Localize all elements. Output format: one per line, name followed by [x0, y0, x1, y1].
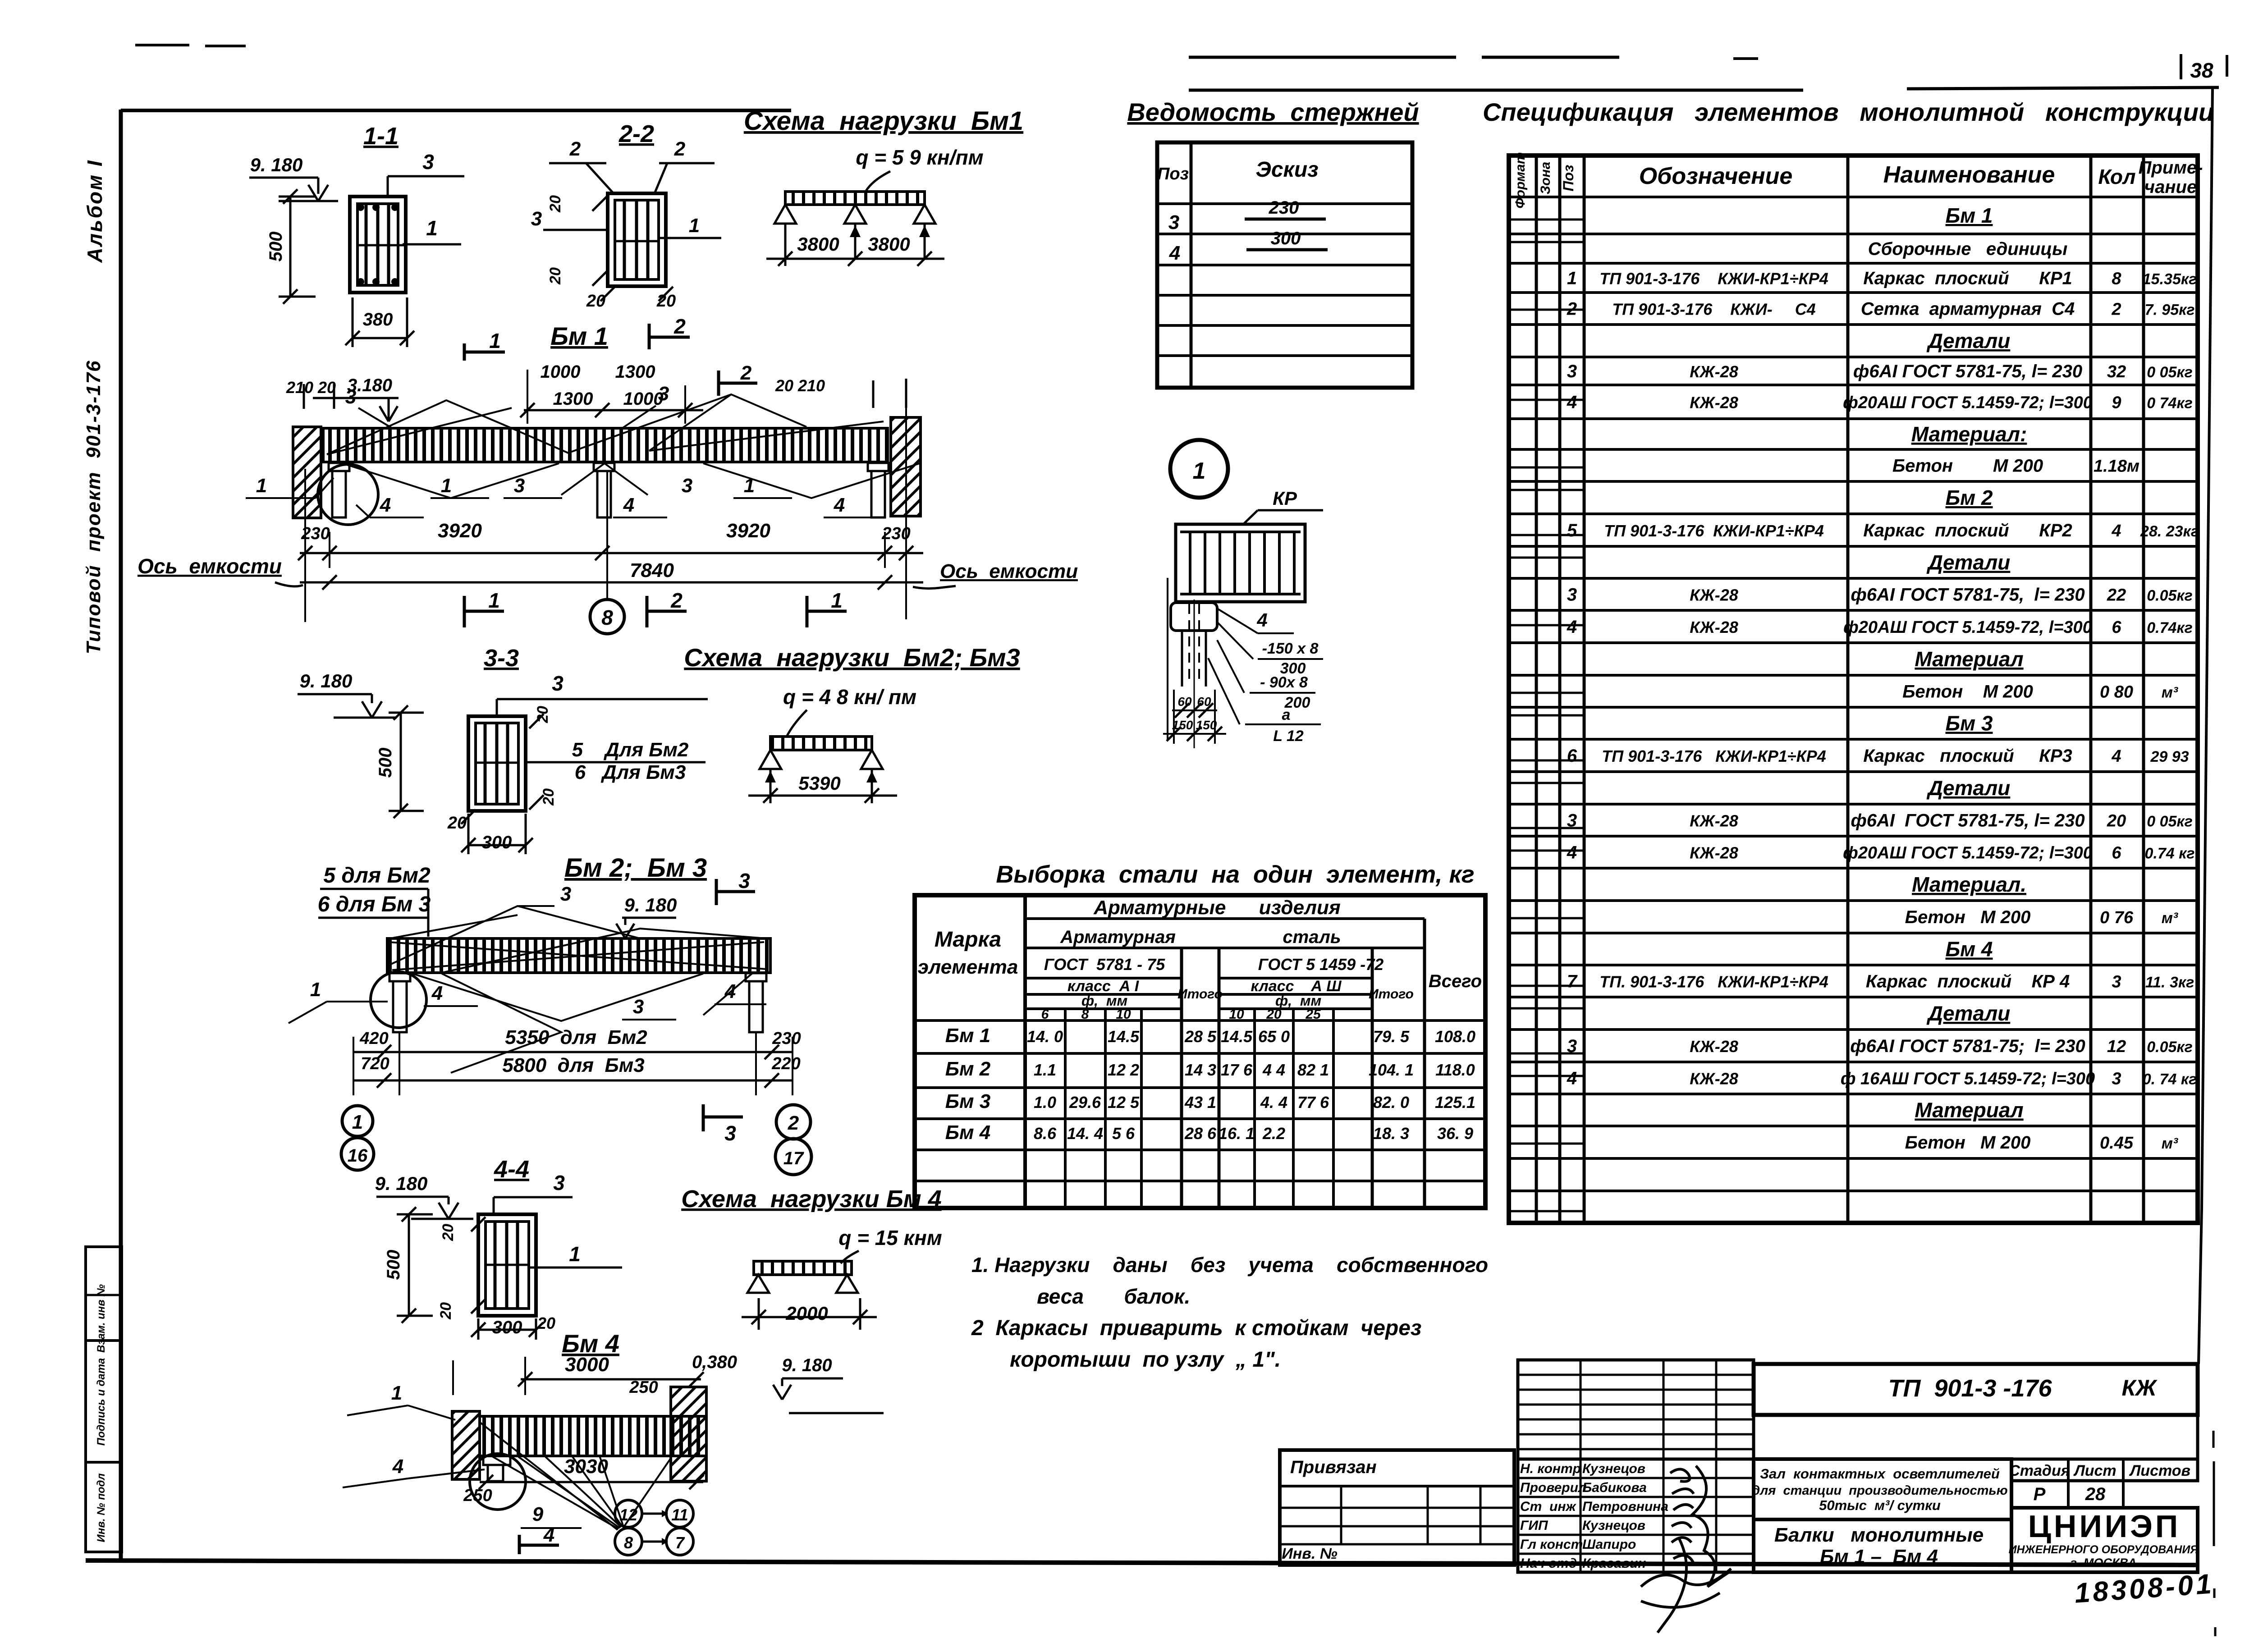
- Бм4 beam band with stirrups: [480, 1416, 706, 1456]
- Бм4 detail circle: [470, 1454, 526, 1510]
- svg-text:ф6АI ГОСТ 5781-75, l= 230: ф6АI ГОСТ 5781-75, l= 230: [1851, 811, 2084, 831]
- load strip Бм1: [785, 192, 925, 205]
- page frame bottom border: [86, 1560, 2199, 1565]
- svg-text:28: 28: [2085, 1484, 2106, 1504]
- svg-text:Поз: Поз: [1157, 165, 1189, 183]
- svg-text:77 6: 77 6: [1297, 1093, 1329, 1112]
- node circle 1: [1170, 440, 1228, 498]
- svg-text:108.0: 108.0: [1435, 1027, 1475, 1046]
- svg-text:Инв. №: Инв. №: [1282, 1545, 1337, 1562]
- section 2-2 column section: [608, 193, 666, 286]
- svg-text:7. 95кг: 7. 95кг: [2145, 302, 2195, 319]
- svg-text:Формат: Формат: [1513, 152, 1528, 208]
- section flag 2 right of Бм1 label: [648, 324, 651, 349]
- svg-text:20: 20: [547, 195, 564, 213]
- title block: привязан table: [1280, 1450, 1514, 1565]
- svg-text:5 Для Бм2: 5 Для Бм2: [572, 739, 689, 761]
- svg-text:q = 15 кнм: q = 15 кнм: [838, 1226, 942, 1249]
- svg-text:для станции производительнос: для станции производительностью: [1752, 1483, 2007, 1498]
- svg-text:Р: Р: [2034, 1484, 2046, 1504]
- section 4-4 dim 300 and 20: [478, 1329, 536, 1331]
- svg-text:3: 3: [1567, 362, 1577, 381]
- svg-text:3030: 3030: [564, 1455, 608, 1478]
- svg-text:14.5: 14.5: [1108, 1027, 1140, 1046]
- svg-text:0 05кг: 0 05кг: [2147, 813, 2193, 830]
- Бм1 top flag 2: [717, 371, 720, 396]
- svg-text:12: 12: [2107, 1037, 2126, 1056]
- svg-text:Ведомость стержней: Ведомость стержней: [1127, 98, 1419, 126]
- svg-text:1: 1: [1193, 458, 1206, 484]
- svg-text:1300: 1300: [615, 362, 655, 382]
- svg-text:Схема нагрузки Бм1: Схема нагрузки Бм1: [744, 106, 1023, 136]
- svg-text:Бм 2: Бм 2: [1946, 486, 1993, 509]
- svg-text:9. 180: 9. 180: [375, 1173, 428, 1194]
- Спецификация table frame: [1509, 156, 2198, 1223]
- node 1 leader -150x8/300: [1217, 622, 1253, 659]
- svg-text:Шапиро: Шапиро: [1582, 1537, 1636, 1552]
- svg-text:Бм 4: Бм 4: [945, 1121, 990, 1144]
- svg-text:Бабикова: Бабикова: [1582, 1480, 1647, 1495]
- svg-text:КЖ-28: КЖ-28: [1690, 394, 1738, 412]
- svg-text:3-3: 3-3: [484, 645, 519, 672]
- section 1-1 dim 500: [289, 197, 292, 297]
- svg-text:Гл конст: Гл конст: [1520, 1537, 1583, 1552]
- svg-text:ф20АШ ГОСТ 5.1459-72; l=300: ф20АШ ГОСТ 5.1459-72; l=300: [1843, 394, 2093, 412]
- svg-text:2: 2: [1567, 299, 1577, 319]
- flag 3 top right: [715, 879, 718, 905]
- svg-text:Балки монолитные: Балки монолитные: [1774, 1524, 1984, 1546]
- svg-text:9. 180: 9. 180: [782, 1355, 832, 1375]
- Бм1 beam band with stirrups: [323, 428, 888, 462]
- svg-text:Бм 1: Бм 1: [945, 1025, 990, 1047]
- svg-text:Итого: Итого: [1177, 987, 1223, 1002]
- left margin stamp boxes: [86, 1247, 122, 1552]
- svg-text:q = 4 8 кн/ пм: q = 4 8 кн/ пм: [783, 685, 916, 709]
- svg-text:Бм 1: Бм 1: [550, 322, 608, 350]
- page frame top dashes upper-left: [135, 44, 189, 46]
- Бм1 dim line 3920+3920 with 230 ends: [300, 552, 923, 554]
- dim 2000: [742, 1316, 877, 1318]
- svg-text:3920: 3920: [438, 520, 482, 542]
- svg-text:5800 для Бм3: 5800 для Бм3: [502, 1054, 644, 1076]
- svg-text:ф6АI ГОСТ 5781-75, l= 230: ф6АI ГОСТ 5781-75, l= 230: [1851, 585, 2084, 605]
- svg-text:ф20АШ ГОСТ 5.1459-72, l=300: ф20АШ ГОСТ 5.1459-72, l=300: [1843, 618, 2092, 637]
- supports Бм4: [747, 1275, 769, 1293]
- svg-text:3: 3: [531, 208, 542, 230]
- node 1 leader -90x8/200: [1217, 640, 1244, 693]
- svg-text:7840: 7840: [630, 559, 674, 581]
- svg-text:4: 4: [1567, 1069, 1577, 1089]
- svg-text:Нач отд: Нач отд: [1520, 1556, 1577, 1571]
- svg-text:3800: 3800: [868, 233, 910, 255]
- svg-text:ТП 901-3-176 КЖИ-КР1÷КР4: ТП 901-3-176 КЖИ-КР1÷КР4: [1599, 270, 1828, 288]
- svg-text:150: 150: [1172, 718, 1193, 732]
- title block: стадия лист листов: [2011, 1459, 2198, 1481]
- svg-text:элемента: элемента: [918, 956, 1018, 978]
- svg-text:Бм 2; Бм 3: Бм 2; Бм 3: [564, 853, 707, 883]
- svg-text:КЖ: КЖ: [2121, 1375, 2158, 1400]
- svg-text:1. Нагрузки даны без: 1. Нагрузки даны без учета собственного: [971, 1253, 1488, 1277]
- svg-text:3: 3: [738, 869, 750, 892]
- svg-text:7: 7: [675, 1533, 685, 1552]
- Бм1 bottom bar diagonals: [343, 463, 920, 498]
- svg-text:Материал: Материал: [1915, 1098, 2023, 1122]
- svg-text:м³: м³: [2162, 1135, 2179, 1152]
- svg-text:4: 4: [834, 494, 845, 516]
- section 4-4 dim 500: [408, 1214, 410, 1316]
- svg-text:14.5: 14.5: [1221, 1027, 1253, 1046]
- svg-text:43 1: 43 1: [1184, 1093, 1216, 1112]
- svg-text:6: 6: [1041, 1007, 1049, 1022]
- svg-text:300: 300: [482, 833, 512, 852]
- svg-text:Бм 4: Бм 4: [1946, 938, 1993, 961]
- svg-text:м³: м³: [2162, 684, 2179, 701]
- svg-text:1: 1: [391, 1382, 402, 1404]
- Бм2 diagonals above: [390, 906, 640, 965]
- svg-text:4: 4: [1169, 242, 1180, 264]
- svg-text:8: 8: [624, 1533, 633, 1552]
- svg-text:4: 4: [623, 494, 634, 516]
- section flag 3 bottom: [702, 1104, 705, 1131]
- svg-text:Бетон М 200: Бетон М 200: [1905, 1133, 2031, 1153]
- svg-text:500: 500: [384, 1250, 403, 1280]
- svg-text:ф, мм: ф, мм: [1275, 993, 1322, 1009]
- svg-text:118.0: 118.0: [1435, 1061, 1475, 1079]
- Бм2 dim 5800 для Бм3: [353, 1080, 793, 1082]
- svg-text:Бм 1 – Бм 4: Бм 1 – Бм 4: [1820, 1546, 1938, 1568]
- Бм2 detail circle at left support: [371, 972, 426, 1028]
- svg-text:4: 4: [2111, 747, 2121, 766]
- svg-text:14 3: 14 3: [1185, 1061, 1216, 1079]
- svg-text:22: 22: [2107, 586, 2126, 605]
- svg-text:4-4: 4-4: [494, 1156, 529, 1183]
- svg-text:КЖ-28: КЖ-28: [1690, 586, 1738, 604]
- svg-text:сталь: сталь: [1283, 927, 1341, 947]
- svg-text:веса балок.: веса балок.: [1037, 1285, 1190, 1308]
- node 1 support pad: [1171, 603, 1217, 631]
- title block: ТП 901-3-176 КЖ box: [1754, 1364, 2198, 1415]
- axis circles 2 / 17: [776, 1105, 811, 1139]
- svg-text:32: 32: [2107, 362, 2126, 381]
- svg-text:Н. контр: Н. контр: [1520, 1461, 1581, 1476]
- Бм1 support columns: [329, 463, 349, 471]
- svg-text:7: 7: [1567, 972, 1578, 992]
- svg-text:4: 4: [431, 982, 443, 1004]
- svg-text:12 5: 12 5: [1108, 1093, 1140, 1112]
- dim 3800 3800: [784, 224, 787, 266]
- Бм1 right wall: [891, 417, 921, 516]
- svg-text:220: 220: [771, 1054, 800, 1073]
- section flag 1 below 1-1: [463, 343, 466, 361]
- Бм4 ref circles 12-11 8-7: [615, 1500, 642, 1527]
- load strip Бм4: [754, 1261, 852, 1275]
- svg-text:10: 10: [1229, 1007, 1244, 1022]
- svg-text:Бм 3: Бм 3: [945, 1090, 990, 1112]
- title block: project name box: [1754, 1459, 2011, 1519]
- section 4-4 leader 1: [529, 1267, 622, 1269]
- svg-text:300: 300: [492, 1318, 522, 1337]
- svg-text:ЦНИИЭП: ЦНИИЭП: [2028, 1509, 2181, 1544]
- Бм4 support pad: [483, 1456, 510, 1465]
- svg-text:20: 20: [440, 1224, 457, 1241]
- svg-text:Наименование: Наименование: [1883, 162, 2055, 188]
- svg-text:Кузнецов: Кузнецов: [1582, 1518, 1645, 1533]
- svg-text:82 1: 82 1: [1297, 1061, 1329, 1079]
- svg-text:4: 4: [1567, 393, 1577, 412]
- svg-text:3: 3: [1168, 211, 1179, 233]
- svg-text:50тыс м³/ сутки: 50тыс м³/ сутки: [1819, 1497, 1941, 1513]
- svg-text:5350 для Бм2: 5350 для Бм2: [505, 1026, 647, 1048]
- svg-text:Материал:: Материал:: [1911, 422, 2027, 446]
- svg-text:Итого: Итого: [1369, 987, 1414, 1002]
- Бм4 right wall: [671, 1387, 706, 1481]
- svg-text:ф6АI ГОСТ 5781-75; l= 230: ф6АI ГОСТ 5781-75; l= 230: [1850, 1036, 2085, 1056]
- svg-text:11: 11: [671, 1506, 688, 1524]
- svg-text:Лист: Лист: [2073, 1462, 2116, 1479]
- axis circles 1 / 16: [342, 1106, 373, 1136]
- svg-text:65 0: 65 0: [1258, 1027, 1290, 1046]
- svg-text:28 6: 28 6: [1184, 1124, 1217, 1143]
- svg-text:3: 3: [422, 150, 434, 174]
- svg-text:а: а: [1282, 706, 1291, 723]
- page frame right dashed lower segments: [2213, 1431, 2215, 1448]
- svg-text:2.2: 2.2: [1262, 1124, 1285, 1143]
- svg-text:29.6: 29.6: [1069, 1093, 1101, 1112]
- svg-text:Привязан: Привязан: [1290, 1457, 1377, 1477]
- svg-text:Кол: Кол: [2098, 165, 2135, 188]
- svg-text:6: 6: [2112, 844, 2121, 863]
- svg-text:3: 3: [724, 1121, 736, 1145]
- svg-text:м³: м³: [2162, 910, 2179, 927]
- svg-text:ТП 901-3-176 КЖИ- С4: ТП 901-3-176 КЖИ- С4: [1612, 300, 1815, 319]
- svg-text:ф, мм: ф, мм: [1081, 993, 1128, 1009]
- title block: upper mini grid: [1518, 1360, 1754, 1459]
- svg-text:Типовой проект 901-3-176: Типовой проект 901-3-176: [82, 360, 105, 654]
- svg-text:ГИП: ГИП: [1520, 1518, 1548, 1533]
- svg-text:29 93: 29 93: [2150, 748, 2189, 765]
- Бм1 detail circle at left support: [318, 464, 378, 525]
- svg-text:500: 500: [266, 232, 286, 262]
- svg-text:2: 2: [673, 315, 686, 338]
- svg-text:ТП 901-3-176 КЖИ-КР1÷КР4: ТП 901-3-176 КЖИ-КР1÷КР4: [1604, 522, 1824, 540]
- svg-text:Подпись и дата: Подпись и дата: [95, 1358, 107, 1446]
- svg-text:1: 1: [569, 1242, 581, 1266]
- svg-text:Ось емкости: Ось емкости: [137, 554, 282, 578]
- svg-text:10: 10: [1116, 1007, 1131, 1022]
- svg-text:Листов: Листов: [2129, 1462, 2190, 1479]
- section 4-4 leader 3: [493, 1197, 495, 1214]
- svg-text:КЖ-28: КЖ-28: [1690, 362, 1738, 381]
- node 1 leader 4: [1217, 609, 1258, 633]
- svg-text:Схема нагрузки Бм 4: Схема нагрузки Бм 4: [681, 1185, 942, 1213]
- svg-text:3: 3: [560, 883, 571, 905]
- svg-text:КЖ-28: КЖ-28: [1690, 1037, 1738, 1056]
- Бм4 section flag 4: [518, 1535, 521, 1554]
- svg-text:1: 1: [689, 215, 700, 237]
- svg-text:20: 20: [447, 814, 467, 833]
- svg-text:КЖ-28: КЖ-28: [1690, 844, 1738, 862]
- svg-text:Схема нагрузки Бм2; Бм3: Схема нагрузки Бм2; Бм3: [684, 643, 1020, 672]
- section flags below Бм1: 1 2 1: [463, 596, 466, 627]
- svg-text:3: 3: [552, 672, 563, 695]
- svg-text:Всего: Всего: [1429, 971, 1482, 991]
- page frame top dashed line segments: [1189, 56, 1456, 59]
- sheet number 38 with ticks: [2180, 54, 2182, 79]
- svg-text:КЖ-28: КЖ-28: [1690, 618, 1738, 636]
- svg-text:28. 23кг: 28. 23кг: [2140, 523, 2199, 540]
- section 3-3 column section: [468, 716, 526, 811]
- svg-text:15.35кг: 15.35кг: [2143, 271, 2197, 288]
- Бм1 axis centerlines: [304, 469, 306, 622]
- svg-text:Инв. № подл: Инв. № подл: [95, 1474, 107, 1542]
- svg-text:210 20: 210 20: [286, 378, 336, 397]
- svg-text:Марка: Марка: [935, 928, 1001, 952]
- svg-text:Зал контактных осветлителей: Зал контактных осветлителей: [1760, 1466, 2000, 1482]
- svg-text:Бм 2: Бм 2: [945, 1058, 991, 1080]
- svg-text:ТП 901-3-176 КЖИ-КР1÷КР4: ТП 901-3-176 КЖИ-КР1÷КР4: [1602, 747, 1826, 765]
- svg-text:Сборочные единицы: Сборочные единицы: [1868, 239, 2068, 259]
- svg-text:20: 20: [1266, 1007, 1282, 1022]
- title block: staff table: [1518, 1459, 1754, 1572]
- svg-text:79. 5: 79. 5: [1373, 1027, 1410, 1046]
- svg-text:0. 74 кг: 0. 74 кг: [2143, 1071, 2197, 1088]
- section 3-3 leaders 5/6 для Бм2/Бм3: [527, 761, 706, 764]
- svg-text:q = 5 9 кн/пм: q = 5 9 кн/пм: [856, 146, 983, 169]
- svg-text:9: 9: [2112, 394, 2121, 412]
- svg-text:720: 720: [361, 1054, 389, 1073]
- svg-text:ТП. 901-3-176 КЖИ-КР1÷КР4: ТП. 901-3-176 КЖИ-КР1÷КР4: [1599, 973, 1828, 991]
- svg-text:17 6: 17 6: [1221, 1061, 1253, 1079]
- svg-text:чание: чание: [2144, 177, 2197, 197]
- section 2-2 leader 3: [543, 229, 608, 231]
- svg-text:0.05кг: 0.05кг: [2147, 1039, 2193, 1056]
- svg-text:1: 1: [441, 475, 452, 497]
- svg-text:12: 12: [619, 1506, 637, 1524]
- svg-text:2: 2: [569, 138, 581, 160]
- svg-text:9. 180: 9. 180: [300, 670, 353, 691]
- node 1 leader a/L12: [1208, 658, 1240, 724]
- svg-text:6 для Бм 3: 6 для Бм 3: [318, 892, 431, 916]
- Бм4 left wall: [452, 1411, 480, 1479]
- svg-text:250: 250: [629, 1378, 658, 1397]
- svg-text:125.1: 125.1: [1435, 1093, 1475, 1112]
- svg-text:2000: 2000: [785, 1303, 828, 1324]
- svg-text:0 05кг: 0 05кг: [2147, 364, 2193, 381]
- svg-text:Зона: Зона: [1538, 162, 1553, 194]
- Ведомость table frame: [1157, 142, 1412, 388]
- svg-text:8: 8: [1081, 1007, 1089, 1022]
- svg-text:Детали: Детали: [1926, 1002, 2011, 1025]
- svg-text:Эскиз: Эскиз: [1255, 158, 1318, 182]
- section 1-1 leader 1: [403, 243, 461, 246]
- svg-text:1: 1: [310, 979, 321, 1001]
- svg-text:-150 х 8: -150 х 8: [1262, 640, 1319, 657]
- Бм2 dim 5350 для Бм2: [353, 1051, 793, 1053]
- svg-text:Детали: Детали: [1926, 551, 2011, 574]
- section 3-3 dim 300: [468, 844, 526, 847]
- svg-text:Выборка стали на один элем: Выборка стали на один элемент, кг: [996, 861, 1474, 888]
- svg-text:0 76: 0 76: [2100, 908, 2134, 927]
- section 2-2 leader 1: [659, 237, 721, 239]
- Бм1 dim line 7840: [300, 581, 923, 584]
- svg-text:Каркас плоский КР1: Каркас плоский КР1: [1863, 269, 2072, 288]
- svg-text:Детали: Детали: [1926, 329, 2011, 352]
- svg-text:6: 6: [2112, 618, 2121, 637]
- svg-text:9. 180: 9. 180: [250, 154, 303, 175]
- svg-text:Бетон М 200: Бетон М 200: [1902, 682, 2033, 702]
- Бм2 axis lines: [399, 1032, 400, 1095]
- svg-text:18308-01: 18308-01: [2074, 1568, 2215, 1609]
- svg-text:380: 380: [363, 310, 393, 329]
- svg-text:1: 1: [256, 475, 267, 497]
- svg-text:Кузнецов: Кузнецов: [1582, 1461, 1645, 1476]
- svg-text:ф20АШ ГОСТ 5.1459-72; l=300: ф20АШ ГОСТ 5.1459-72; l=300: [1843, 844, 2093, 863]
- svg-text:Взам. инв №: Взам. инв №: [95, 1284, 107, 1353]
- node 1 dims 60 60 150 150: [1167, 578, 1168, 739]
- svg-text:4 4: 4 4: [1262, 1061, 1285, 1079]
- svg-text:1.18м: 1.18м: [2094, 457, 2139, 476]
- svg-text:ТП 901-3 -176: ТП 901-3 -176: [1888, 1375, 2052, 1402]
- svg-text:6 Для Бм3: 6 Для Бм3: [575, 761, 686, 783]
- svg-text:1: 1: [426, 216, 438, 240]
- svg-text:1: 1: [744, 475, 755, 497]
- svg-text:16: 16: [348, 1146, 368, 1166]
- svg-text:Петровнина: Петровнина: [1582, 1499, 1668, 1514]
- page frame right border: [2202, 87, 2213, 1208]
- svg-text:Бм 1: Бм 1: [1946, 204, 1993, 227]
- svg-text:20: 20: [586, 292, 605, 311]
- svg-text:Материал: Материал: [1915, 647, 2023, 671]
- load strip Бм2: [770, 737, 872, 750]
- svg-text:3: 3: [1567, 585, 1577, 605]
- svg-text:3800: 3800: [797, 233, 839, 255]
- svg-text:Бетон М 200: Бетон М 200: [1892, 456, 2043, 476]
- svg-text:Приме-: Приме-: [2139, 158, 2203, 178]
- svg-text:1: 1: [489, 329, 501, 352]
- svg-text:230: 230: [881, 524, 910, 543]
- Бм2 diagonals below: [412, 974, 752, 1021]
- svg-text:0 74кг: 0 74кг: [2147, 395, 2193, 412]
- page frame left border: [119, 110, 123, 1560]
- svg-text:Арматурная: Арматурная: [1060, 927, 1176, 947]
- svg-text:3: 3: [514, 475, 525, 497]
- dim 5390: [748, 795, 897, 797]
- svg-text:Каркас плоский КР2: Каркас плоский КР2: [1863, 521, 2072, 540]
- svg-text:Обозначение: Обозначение: [1639, 163, 1793, 189]
- node 1 beam block: [1176, 524, 1305, 602]
- svg-text:9. 180: 9. 180: [624, 894, 677, 915]
- svg-text:Спецификация элементов мон: Спецификация элементов монолитной констр…: [1483, 98, 2214, 126]
- svg-text:9: 9: [532, 1503, 544, 1525]
- svg-text:104. 1: 104. 1: [1369, 1061, 1414, 1079]
- svg-text:6: 6: [1567, 746, 1577, 766]
- svg-text:8: 8: [2112, 270, 2121, 288]
- svg-text:11. 3кг: 11. 3кг: [2145, 974, 2194, 991]
- section 1-1 dim 380: [353, 337, 407, 339]
- svg-text:Красавин: Красавин: [1582, 1556, 1646, 1571]
- svg-text:3920: 3920: [726, 520, 770, 542]
- svg-text:4: 4: [1567, 617, 1577, 637]
- svg-text:14. 0: 14. 0: [1027, 1027, 1063, 1046]
- svg-text:300: 300: [1271, 229, 1301, 248]
- svg-text:2 Каркасы приварить к стойк: 2 Каркасы приварить к стойкам через: [971, 1316, 1421, 1340]
- svg-text:2: 2: [670, 589, 683, 612]
- supports Бм1: [774, 205, 796, 224]
- section 1-1 column section with rebar: [350, 197, 406, 293]
- svg-text:4: 4: [2111, 522, 2121, 540]
- svg-text:17: 17: [783, 1149, 804, 1168]
- svg-text:18. 3: 18. 3: [1373, 1124, 1409, 1143]
